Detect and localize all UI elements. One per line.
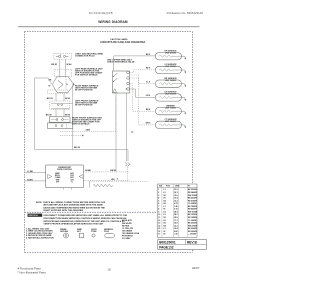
wire connector drop dashed bbox=[127, 167, 129, 181]
svg-text:8: 8 bbox=[158, 209, 159, 211]
svg-text:IMPROPER AND DANGEROUS OPERATI: IMPROPER AND DANGEROUS OPERATION OF THE … bbox=[44, 220, 126, 223]
triangle marker inside J1 bbox=[113, 89, 117, 93]
svg-text:BK 1350W: BK 1350W bbox=[188, 214, 197, 216]
svg-text:GAUGE AND TEMPERATURE RATED WI: GAUGE AND TEMPERATURE RATED WIRE AS SHOW… bbox=[43, 206, 105, 209]
connector J1 terminal box bbox=[113, 71, 130, 93]
wire left feed into diamond bbox=[35, 78, 53, 85]
svg-text:7.40: 7.40 bbox=[174, 205, 178, 208]
svg-text:VERIFY PROPER OPERATION AFTER: VERIFY PROPER OPERATION AFTER SERVICING … bbox=[44, 223, 104, 226]
svg-text:BK 4220W: BK 4220W bbox=[188, 197, 197, 200]
heating element E2 surface unit oval bbox=[146, 63, 186, 74]
svg-text:02/07: 02/07 bbox=[192, 266, 200, 270]
node annotation T6 bbox=[107, 59, 135, 63]
svg-text:W 84: W 84 bbox=[67, 63, 73, 66]
svg-text:N1: N1 bbox=[164, 195, 166, 197]
thermostat TH1 box bbox=[46, 165, 84, 188]
svg-text:N1: N1 bbox=[164, 217, 166, 219]
svg-text:BK 81: BK 81 bbox=[51, 64, 58, 66]
node legend numbered list bbox=[26, 227, 54, 239]
svg-text:7: 7 bbox=[158, 206, 159, 208]
node WARNING paragraph bbox=[28, 214, 43, 217]
connector inline plug chevrons bbox=[125, 163, 130, 167]
svg-text:1: 1 bbox=[158, 189, 159, 191]
wire J1 drop a bbox=[115, 93, 117, 172]
svg-text:21.5: 21.5 bbox=[174, 189, 178, 191]
svg-text:5. SEE INSTALL INSTRUCTION: 5. SEE INSTALL INSTRUCTION bbox=[26, 237, 54, 240]
svg-text:18.3: 18.3 bbox=[174, 192, 178, 194]
svg-text:BAKE: BAKE bbox=[55, 172, 60, 175]
svg-text:CHART SUPPLIED WITH THIS DIAGR: CHART SUPPLIED WITH THIS DIAGRAM bbox=[43, 209, 83, 212]
svg-text:12.2: 12.2 bbox=[174, 225, 178, 227]
svg-text:SWITCH DETAILS: SWITCH DETAILS bbox=[72, 122, 90, 125]
svg-text:4: 4 bbox=[158, 197, 159, 200]
wire plug to switch right bbox=[65, 59, 67, 77]
svg-text:10.4: 10.4 bbox=[174, 227, 178, 230]
svg-text:W: W bbox=[49, 86, 51, 88]
svg-text:10.2: 10.2 bbox=[174, 200, 178, 202]
wire L1 into thermostat bbox=[25, 172, 46, 174]
wire chain segment b bbox=[63, 94, 65, 101]
svg-text:2: 2 bbox=[158, 192, 159, 194]
svg-text:NOTE:: NOTE: bbox=[36, 202, 43, 204]
node NOTE paragraph bbox=[36, 201, 106, 212]
wire feed to E4 bbox=[130, 89, 156, 97]
node revision box bbox=[158, 239, 207, 249]
svg-text:PAGE:2/2: PAGE:2/2 bbox=[159, 246, 174, 250]
wire chain segment c bbox=[55, 109, 57, 116]
svg-text:WH: WH bbox=[111, 179, 115, 181]
svg-text:BK/W: BK/W bbox=[110, 170, 115, 172]
connector dashed box above diamond bbox=[55, 69, 72, 77]
svg-text:RD 2460W: RD 2460W bbox=[188, 191, 197, 194]
svg-text:RD 3950W: RD 3950W bbox=[188, 231, 197, 233]
svg-text:13: 13 bbox=[158, 223, 160, 225]
svg-text:WARNING: WARNING bbox=[28, 214, 38, 217]
svg-text:BK BLACK: BK BLACK bbox=[122, 219, 133, 222]
node junction dot right of diamond bbox=[73, 83, 75, 85]
wire N into thermostat bbox=[25, 180, 46, 182]
svg-text:5: 5 bbox=[158, 200, 159, 202]
wire feed to E5 bbox=[130, 84, 156, 112]
svg-text:17: 17 bbox=[158, 234, 160, 236]
svg-text:— 4700W: — 4700W bbox=[188, 233, 196, 236]
thermostat inner chart left column bbox=[55, 172, 61, 183]
node pin 2 of J1 bbox=[127, 77, 130, 80]
svg-text:OR 8: OR 8 bbox=[146, 95, 150, 97]
svg-text:OVEN CONTROL: OVEN CONTROL bbox=[57, 169, 73, 171]
wire feed to E3 bbox=[130, 78, 156, 84]
svg-text:B09120001: B09120001 bbox=[159, 240, 176, 244]
svg-text:L2: L2 bbox=[164, 192, 166, 194]
svg-text:RD 1680W: RD 1680W bbox=[188, 217, 197, 219]
node console dashed enclosure bbox=[25, 32, 193, 253]
wire W1 drop bbox=[127, 150, 129, 161]
svg-text:IN OFF POSITION: IN OFF POSITION bbox=[75, 89, 93, 91]
switch S1 selector diamond bbox=[52, 77, 74, 93]
svg-text:DISCONNECTION WHEN SERVICING C: DISCONNECTION WHEN SERVICING CONTROLS WI… bbox=[44, 217, 127, 220]
wire thermostat to relay dashed upper bbox=[83, 171, 129, 173]
svg-text:GROUND: GROUND bbox=[60, 231, 69, 233]
switch levers inside J1 bbox=[114, 73, 118, 77]
svg-text:L1: L1 bbox=[164, 228, 166, 230]
quick connector symbol legend bbox=[92, 234, 95, 237]
svg-text:WH 8: WH 8 bbox=[146, 123, 151, 125]
svg-text:BK 82: BK 82 bbox=[74, 147, 81, 149]
svg-text:Publication No. 5995429120: Publication No. 5995429120 bbox=[167, 11, 204, 15]
svg-text:24.2: 24.2 bbox=[174, 213, 178, 216]
heating element E5 surface unit oval bbox=[146, 104, 186, 115]
svg-text:TIME: TIME bbox=[56, 179, 60, 181]
harness plug symbol legend bbox=[105, 233, 115, 237]
node pin 1 of J1 bbox=[127, 71, 130, 74]
svg-text:BK 2330W: BK 2330W bbox=[188, 223, 197, 225]
svg-text:120V: 120V bbox=[70, 179, 75, 181]
svg-text:OR ORANGE 18GA: OR ORANGE 18GA bbox=[122, 232, 140, 235]
svg-text:N WH: N WH bbox=[27, 179, 33, 181]
svg-text:7.25: 7.25 bbox=[174, 234, 178, 236]
svg-text:H2: H2 bbox=[164, 200, 166, 202]
wire main run W1 horizontal bbox=[35, 149, 128, 151]
relay K1 box bbox=[49, 117, 70, 122]
svg-text:3: 3 bbox=[158, 195, 159, 197]
wire dashed arrow segment bbox=[60, 135, 84, 137]
svg-text:120V: 120V bbox=[70, 175, 75, 177]
svg-text:240V: 240V bbox=[70, 172, 75, 175]
svg-text:REV:B: REV:B bbox=[187, 240, 197, 244]
node wire color code list bbox=[122, 219, 140, 240]
svg-text:CHECK ALL WIRING CONNECTIONS B: CHECK ALL WIRING CONNECTIONS BEFORE SERV… bbox=[43, 201, 106, 204]
svg-text:WIRING DIAGRAM: WIRING DIAGRAM bbox=[98, 20, 128, 24]
svg-text:CIRCUITS DE CABLAGE DIAGRAMA: CIRCUITS DE CABLAGE DIAGRAMA bbox=[100, 40, 145, 44]
node annotation T3 bbox=[75, 84, 99, 91]
wire dashed to bake element circuit bbox=[60, 130, 116, 132]
svg-text:H1: H1 bbox=[164, 220, 166, 222]
svg-text:IN OFF POSITION: IN OFF POSITION bbox=[75, 104, 93, 106]
svg-text:L2: L2 bbox=[164, 214, 166, 216]
wire left vertical run L1 bbox=[34, 78, 36, 150]
svg-text:15.6: 15.6 bbox=[174, 195, 178, 197]
svg-text:CHECK RESISTANCE VALUE: CHECK RESISTANCE VALUE bbox=[107, 60, 135, 63]
svg-text:14.8: 14.8 bbox=[174, 222, 178, 225]
wire feed to E2 bbox=[130, 70, 156, 73]
svg-text:N2: N2 bbox=[164, 225, 166, 227]
svg-text:W 88: W 88 bbox=[65, 115, 71, 117]
heating element E6 surface unit oval bbox=[146, 118, 187, 129]
svg-text:GY GRAY: GY GRAY bbox=[122, 237, 131, 240]
svg-text:BK 83: BK 83 bbox=[47, 98, 54, 100]
thermostat right arrow bbox=[79, 175, 83, 179]
thermostat inner chart right column bbox=[70, 172, 75, 183]
wire chain segment a bbox=[55, 94, 57, 101]
svg-text:10: 10 bbox=[158, 214, 160, 216]
ground symbol legend G1 bbox=[64, 233, 69, 238]
node pin 3 of J1 bbox=[127, 82, 130, 85]
wire bake element dashed bottom bbox=[89, 180, 149, 182]
wire feed to E6 bbox=[139, 75, 156, 125]
svg-text:12: 12 bbox=[158, 220, 160, 222]
svg-text:OFF: OFF bbox=[56, 181, 59, 183]
svg-text:WH 3150W: WH 3150W bbox=[188, 195, 197, 197]
wire right vertical run from diamond bbox=[72, 84, 74, 150]
svg-text:BK 85: BK 85 bbox=[46, 115, 53, 117]
thermostat bottom ticks bbox=[63, 188, 65, 190]
heating element E4 surface unit oval bbox=[146, 91, 186, 102]
svg-text:L1: L1 bbox=[164, 189, 166, 191]
svg-text:FOR SWITCH DETAILS: FOR SWITCH DETAILS bbox=[75, 73, 98, 76]
svg-text:L1: L1 bbox=[164, 206, 166, 208]
svg-text:DISCONNECT POWER BEFORE SERVIC: DISCONNECT POWER BEFORE SERVICING UNIT L… bbox=[44, 214, 128, 217]
wire nut symbol legend bbox=[80, 233, 84, 238]
svg-text:WH 1150W: WH 1150W bbox=[188, 211, 197, 213]
svg-text:RD 8360W: RD 8360W bbox=[188, 209, 197, 211]
wire feed to E1 bbox=[114, 55, 156, 57]
svg-text:H2: H2 bbox=[164, 223, 166, 225]
svg-text:BK 2350W: BK 2350W bbox=[188, 189, 197, 191]
svg-text:28.4: 28.4 bbox=[174, 210, 178, 213]
svg-text:EC30IF4EQSB: EC30IF4EQSB bbox=[89, 11, 113, 15]
svg-text:8: 8 bbox=[67, 84, 69, 86]
svg-text:W 86: W 86 bbox=[65, 98, 71, 100]
heating element E3 surface unit oval bbox=[146, 77, 186, 88]
svg-text:6.15: 6.15 bbox=[174, 209, 178, 211]
heating element E1 surface unit oval bbox=[146, 49, 186, 59]
node annotation T2 bbox=[75, 67, 103, 76]
svg-text:YL 1950W: YL 1950W bbox=[188, 220, 197, 222]
svg-text:9: 9 bbox=[158, 211, 159, 213]
svg-text:BK 7400W: BK 7400W bbox=[188, 205, 197, 208]
svg-text:CONN: CONN bbox=[91, 231, 97, 233]
node annotation T4 bbox=[75, 99, 99, 106]
junction dot in J1 bbox=[126, 88, 127, 89]
svg-text:6: 6 bbox=[158, 203, 159, 205]
wire J1 drop b bbox=[126, 93, 128, 161]
svg-text:CONNECTOR PLUG: CONNECTOR PLUG bbox=[75, 56, 95, 58]
svg-text:84 BK: 84 BK bbox=[85, 169, 91, 172]
svg-text:PLUG: PLUG bbox=[104, 231, 110, 233]
svg-text:YL 6280W: YL 6280W bbox=[188, 203, 197, 205]
node annotation T5 bbox=[72, 116, 103, 125]
component U2 lower box bbox=[48, 123, 73, 128]
svg-text:8.60: 8.60 bbox=[174, 231, 178, 233]
svg-text:11: 11 bbox=[158, 217, 160, 219]
wire chain segment d bbox=[63, 109, 65, 116]
svg-text:15: 15 bbox=[158, 228, 160, 230]
svg-text:N: N bbox=[71, 181, 73, 183]
svg-text:N2: N2 bbox=[164, 203, 166, 205]
wire thermostat to relay dashed lower bbox=[83, 180, 129, 182]
wire dashed vertical to connector box bbox=[115, 97, 117, 131]
svg-text:RD 8: RD 8 bbox=[146, 68, 150, 70]
svg-text:BROIL: BROIL bbox=[55, 175, 60, 177]
svg-text:20.6: 20.6 bbox=[174, 217, 178, 219]
node resistance chart table bbox=[157, 184, 197, 237]
switch S2 dashed box with contacts bbox=[50, 101, 70, 109]
svg-text:15: 15 bbox=[107, 267, 111, 271]
svg-text:WH 2750W: WH 2750W bbox=[188, 225, 197, 227]
svg-text:BK 3360W: BK 3360W bbox=[188, 228, 197, 230]
heating element E7 bake zigzag bbox=[94, 184, 113, 187]
svg-text:L2: L2 bbox=[131, 132, 134, 134]
svg-text:BK 8: BK 8 bbox=[146, 109, 150, 111]
svg-text:L1 BK: L1 BK bbox=[27, 171, 33, 173]
svg-text:8: 8 bbox=[117, 179, 119, 181]
svg-text:12.4: 12.4 bbox=[174, 197, 178, 200]
svg-text:RD 5140W: RD 5140W bbox=[188, 199, 197, 202]
svg-text:240V: 240V bbox=[86, 129, 91, 132]
svg-text:16: 16 bbox=[158, 231, 160, 233]
connector P1 power plug dashed box bbox=[54, 53, 72, 59]
node annotation T1 bbox=[75, 53, 104, 58]
wire plug to switch left bbox=[59, 59, 61, 77]
wire header rule bbox=[18, 26, 200, 28]
node legend symbols bbox=[60, 228, 114, 233]
svg-text:UNIT AND REPLACE ANY DAMAGED W: UNIT AND REPLACE ANY DAMAGED WIRE WITH T… bbox=[43, 204, 103, 207]
connector lower dashed box under diamond bbox=[48, 90, 68, 94]
svg-text:H1: H1 bbox=[164, 198, 166, 200]
svg-text:14: 14 bbox=[158, 224, 160, 227]
thermostat left arrow bbox=[48, 175, 52, 179]
svg-text:8.75: 8.75 bbox=[174, 203, 178, 205]
svg-text:NUT: NUT bbox=[77, 231, 82, 233]
node pin 4 of J1 bbox=[127, 88, 130, 91]
svg-text:YL 8: YL 8 bbox=[146, 81, 150, 83]
svg-text:* Non-Illustrated Parts: * Non-Illustrated Parts bbox=[18, 270, 47, 274]
svg-text:17.3: 17.3 bbox=[174, 220, 178, 222]
